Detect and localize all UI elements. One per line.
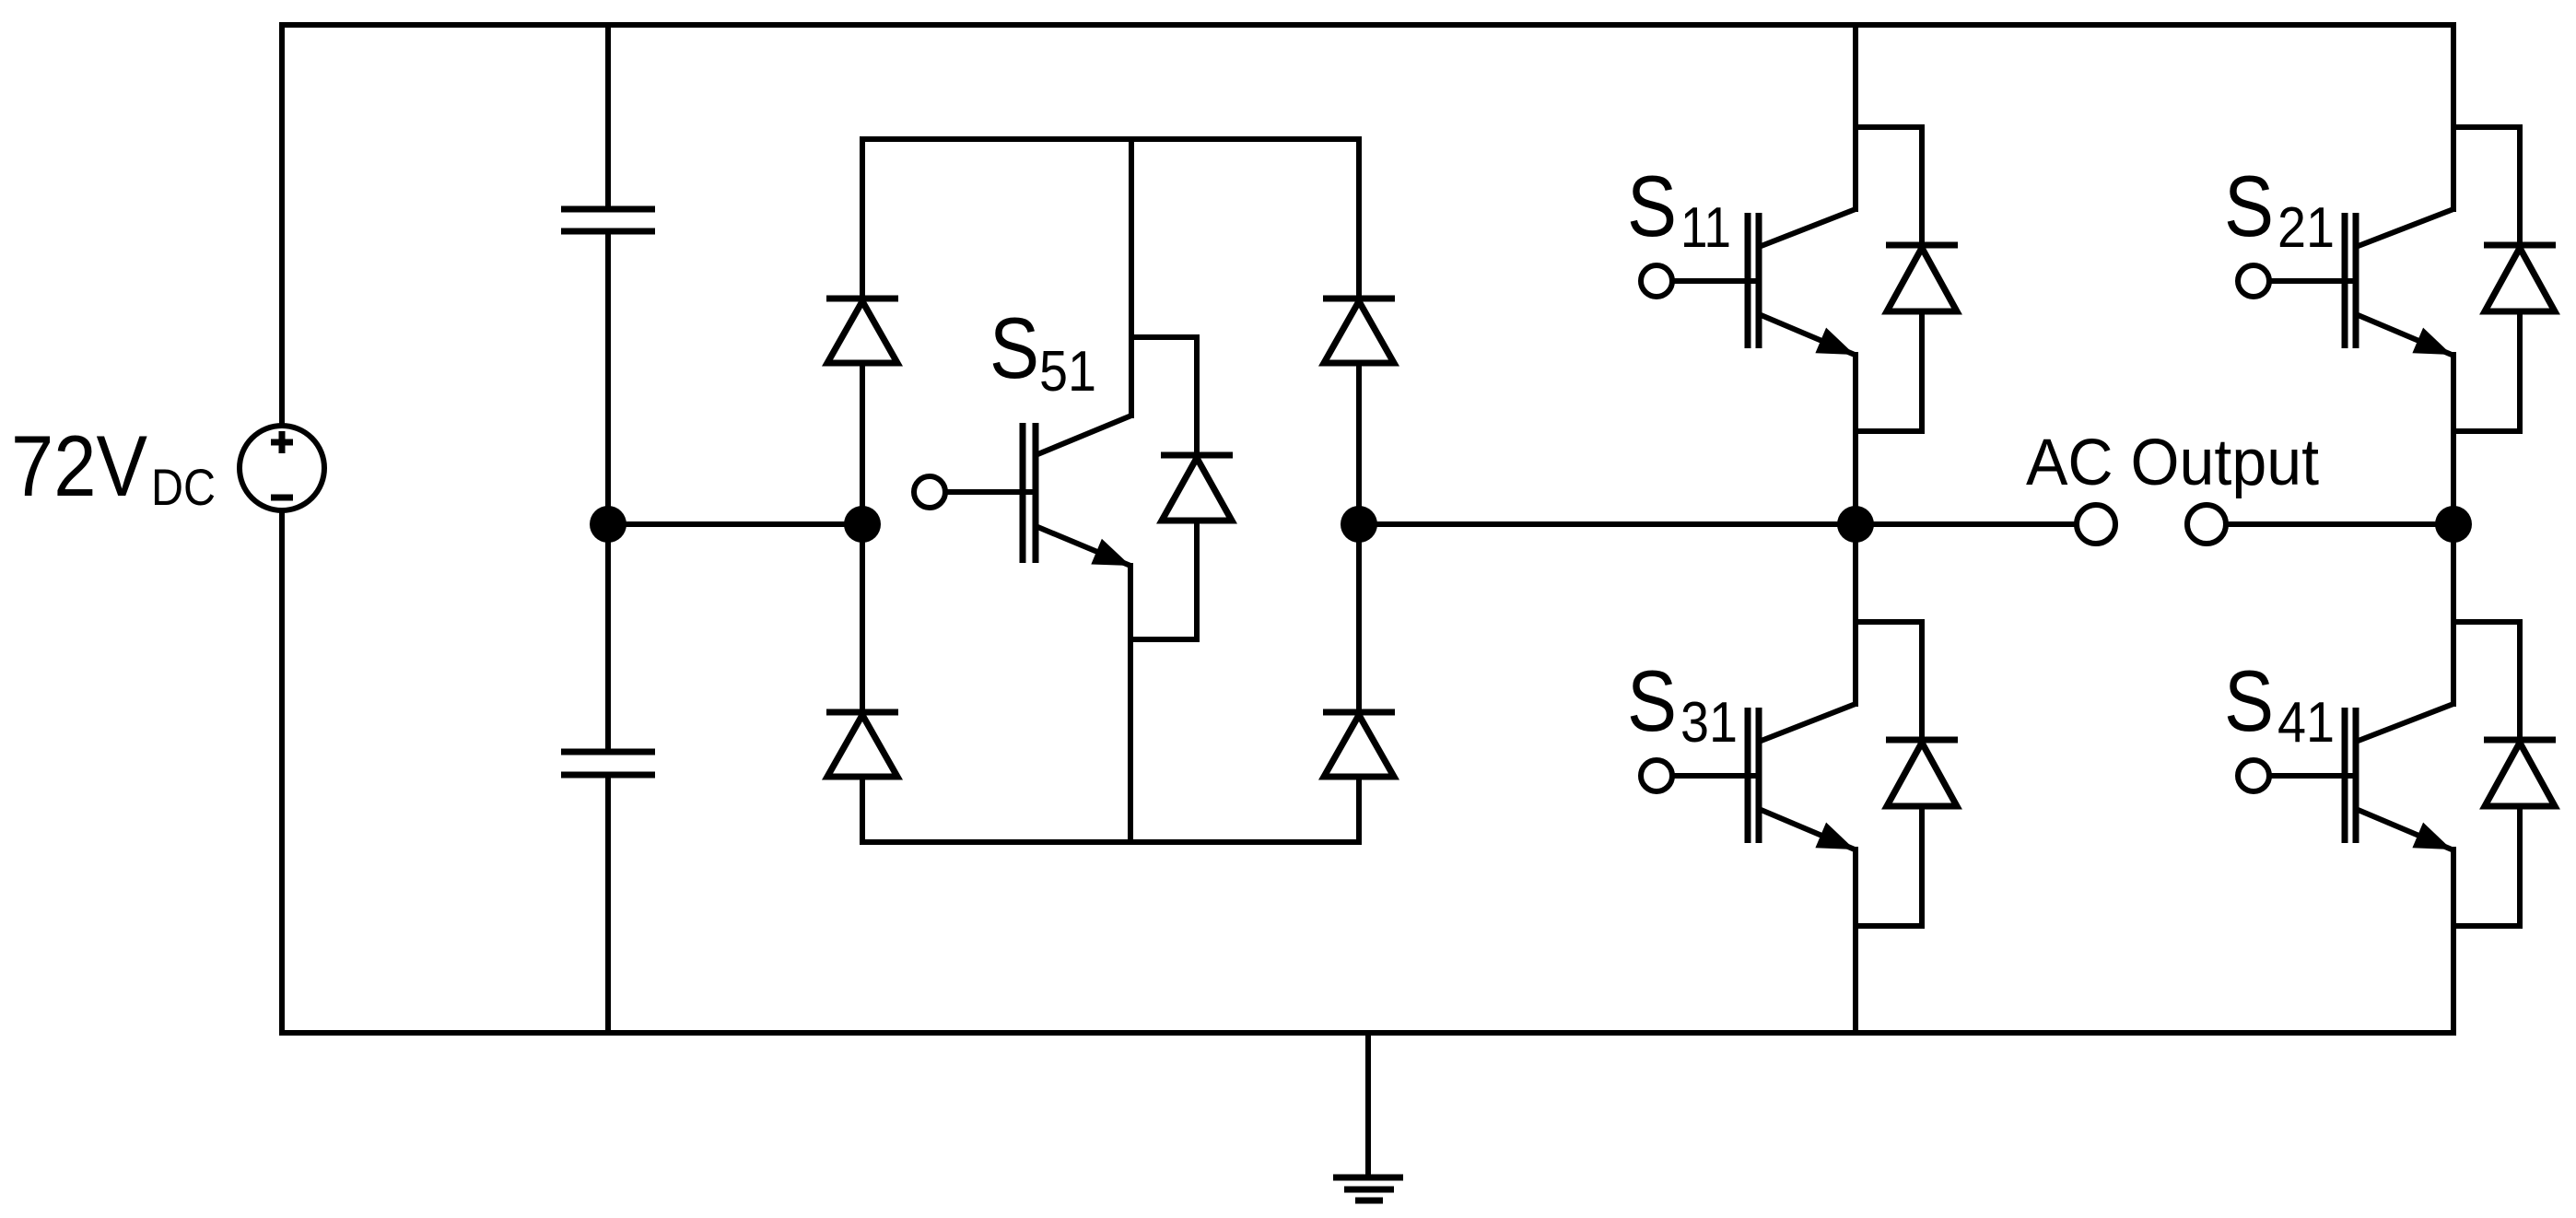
svg-text:DC: DC <box>151 458 216 516</box>
wire bridge to output node <box>1359 521 1856 527</box>
terminal AC output right <box>2187 505 2226 544</box>
diode D3 (bridge lower-left) <box>826 712 898 777</box>
terminal S21 gate circle <box>2238 265 2269 297</box>
wire D41 bottom stub <box>2453 806 2520 926</box>
wire capacitor branch middle <box>605 235 611 748</box>
wire D31 top stub <box>1856 622 1922 737</box>
voltage source V1 circle <box>240 426 324 510</box>
label S11 <box>1627 158 1731 260</box>
transistor Q41 (IGBT S41) <box>2345 704 2453 849</box>
svg-text:S: S <box>1627 652 1677 749</box>
ground <box>1333 1033 1403 1200</box>
diode D31 (antiparallel with S31) <box>1886 740 1958 806</box>
wire S31 gate lead <box>1672 773 1756 779</box>
wire S31 emitter drop <box>1853 849 1858 1033</box>
voltage source plus sign <box>271 431 293 453</box>
wire S21 collector drop <box>2451 25 2456 209</box>
label S41 <box>2224 652 2335 755</box>
svg-text:AC Output: AC Output <box>2026 427 2319 499</box>
wire S31 collector drop <box>1853 524 1858 704</box>
svg-text:41: 41 <box>2277 691 2335 755</box>
wire D31 bottom stub <box>1856 806 1922 926</box>
node bridge right midpoint <box>1341 506 1377 543</box>
svg-text:72V: 72V <box>11 417 147 514</box>
svg-text:21: 21 <box>2277 196 2335 260</box>
wire S51 collector drop <box>1129 139 1134 416</box>
wire bridge left leg lower <box>860 777 865 842</box>
wire S11 emitter drop <box>1853 355 1858 524</box>
diode D41 (antiparallel with S41) <box>2484 740 2556 806</box>
svg-text:31: 31 <box>1680 691 1738 755</box>
svg-text:51: 51 <box>1039 340 1096 404</box>
wire S21 gate lead <box>2269 278 2353 284</box>
wire D11 bottom stub <box>1856 311 1922 431</box>
wire AC terminal right to node <box>2228 521 2453 527</box>
transistor Q21 (IGBT S21) <box>2345 209 2453 355</box>
label S51 <box>989 299 1096 404</box>
wire bridge right leg upper <box>1356 139 1362 297</box>
wire bridge left leg upper <box>860 139 865 297</box>
label S21 <box>2224 158 2335 260</box>
node bridge left midpoint <box>844 506 881 543</box>
terminal S31 gate circle <box>1641 760 1672 791</box>
wire bridge bottom rail <box>862 839 1359 845</box>
node inverter left output <box>1837 506 1874 543</box>
wire capacitor branch lower <box>605 779 611 1033</box>
terminal AC output left <box>2077 505 2115 544</box>
wire S41 gate lead <box>2269 773 2353 779</box>
transistor Q51 (IGBT S51) <box>1023 416 1131 566</box>
diode D4 (bridge lower-right) <box>1323 712 1395 777</box>
label S31 <box>1627 652 1738 755</box>
terminal S11 gate circle <box>1641 265 1672 297</box>
node inverter right output <box>2435 506 2472 543</box>
wire bridge top rail <box>862 136 1359 142</box>
wire bridge left leg middle <box>860 363 865 710</box>
node capacitor midpoint <box>590 506 626 543</box>
label 72VDC <box>11 417 216 516</box>
svg-text:11: 11 <box>1680 196 1731 260</box>
svg-text:S: S <box>2224 158 2274 254</box>
wire S11 gate lead <box>1672 278 1756 284</box>
svg-text:S: S <box>989 299 1039 396</box>
svg-text:S: S <box>1627 158 1677 254</box>
terminal S51 gate circle <box>914 476 945 508</box>
voltage source minus sign <box>271 495 293 501</box>
wire top rail (DC+ bus) <box>282 22 2453 28</box>
transistor Q11 (IGBT S11) <box>1748 209 1856 355</box>
diode D11 (antiparallel with S11) <box>1886 245 1958 311</box>
wire D11 top stub <box>1856 127 1922 242</box>
diode D2 (bridge upper-right) <box>1323 299 1395 363</box>
wire D21 bottom stub <box>2453 311 2520 431</box>
wire left branch lower (source - lead) <box>279 510 285 1033</box>
wire S21 emitter drop <box>2451 355 2456 524</box>
capacitor C1 <box>561 209 655 231</box>
wire bridge right leg lower <box>1356 777 1362 842</box>
wire left branch upper (source + lead) <box>279 25 285 426</box>
svg-text:S: S <box>2224 652 2274 749</box>
transistor Q31 (IGBT S31) <box>1748 704 1856 849</box>
wire S51 emitter drop <box>1128 566 1133 842</box>
wire S51 diode bottom jog <box>1130 521 1197 639</box>
terminal S41 gate circle <box>2238 760 2269 791</box>
diode D51 (antiparallel with S51) <box>1161 455 1233 521</box>
wire S51 diode top jog <box>1131 337 1197 452</box>
wire capacitor branch upper <box>605 25 611 205</box>
diode D1 (bridge upper-left) <box>826 299 898 363</box>
wire S51 gate lead <box>945 489 1033 495</box>
diode D21 (antiparallel with S21) <box>2484 245 2556 311</box>
wire D41 top stub <box>2453 622 2520 737</box>
wire bottom rail (DC- bus) <box>282 1030 2453 1036</box>
wire bridge right leg middle <box>1356 363 1362 710</box>
wire node to AC terminal left <box>1856 521 2075 527</box>
capacitor C2 <box>561 752 655 775</box>
wire D21 top stub <box>2453 127 2520 242</box>
wire S11 collector drop <box>1853 25 1858 209</box>
wire S41 emitter drop <box>2451 849 2456 1033</box>
wire S41 collector drop <box>2451 524 2456 704</box>
wire midpoint to bridge <box>608 521 862 527</box>
